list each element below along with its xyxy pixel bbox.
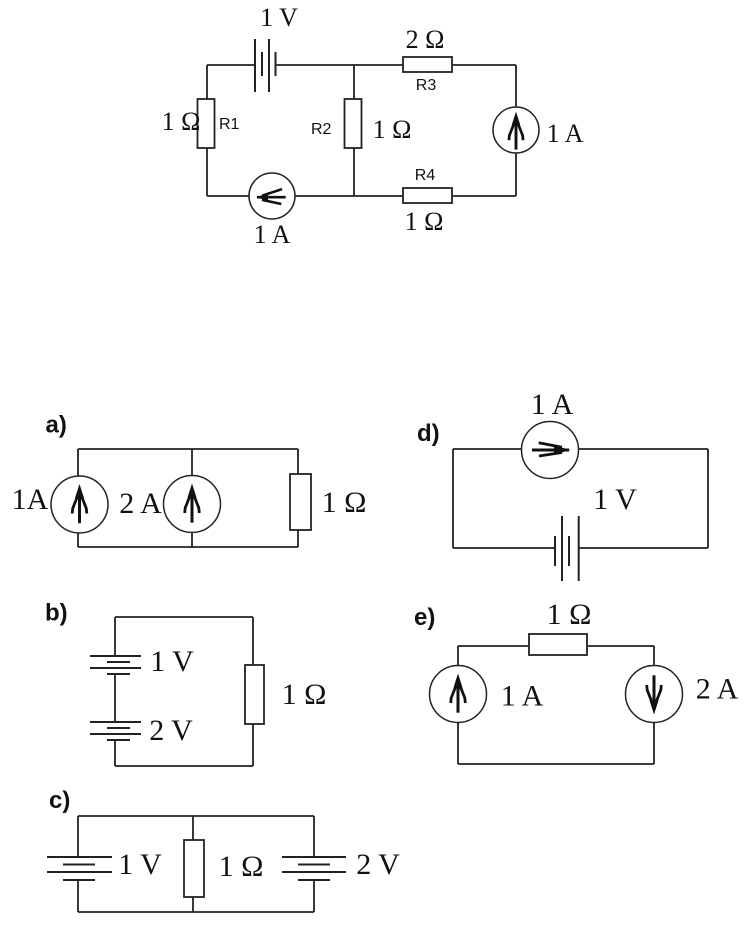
wire: d top rail left [453, 448, 522, 450]
svg-text:1 A: 1 A [254, 220, 291, 249]
resistor R3 [403, 57, 452, 72]
svg-text:1 A: 1 A [531, 388, 574, 421]
wire: c top rail [78, 815, 314, 817]
resistor R1 [198, 99, 215, 148]
wire: e top rail left [458, 645, 529, 647]
wire: middle branch lower [353, 148, 355, 196]
wire: e bottom rail [458, 763, 654, 765]
wire: d bottom rail right [579, 547, 708, 549]
svg-text:1 V: 1 V [118, 848, 162, 881]
wire: a top rail [78, 448, 298, 450]
current source Id (1 A, arrow right) [522, 422, 579, 479]
wire: c middle branch stubs [192, 816, 194, 840]
resistor Ra (1 Ohm) [290, 474, 311, 530]
resistor Rc (1 Ohm) [184, 840, 204, 897]
battery Vb2 (2 V) [90, 722, 141, 740]
wire: e top rail right [587, 645, 654, 647]
resistor Rb (1 Ohm) [245, 665, 264, 724]
svg-text:R2: R2 [311, 121, 332, 138]
svg-text:a): a) [46, 412, 67, 439]
current source I2 (1 A, arrow up) [493, 107, 539, 153]
svg-text:1 Ω: 1 Ω [322, 486, 367, 519]
svg-text:2 Ω: 2 Ω [406, 25, 445, 54]
resistor Re (1 Ohm) [529, 634, 587, 655]
svg-text:2 A: 2 A [696, 673, 739, 706]
wire: middle branch upper [353, 65, 355, 99]
svg-text:1 A: 1 A [547, 119, 584, 148]
wire: top rail left segment [207, 64, 255, 66]
svg-text:1 V: 1 V [593, 483, 637, 516]
svg-text:1 Ω: 1 Ω [405, 207, 444, 236]
current source Ie1 (1 A, arrow up) [430, 666, 487, 723]
wire: a left branch stubs [77, 449, 79, 476]
svg-text:1 Ω: 1 Ω [219, 850, 264, 883]
wire: d right branch [707, 449, 709, 548]
battery Vc1 (1 V) [47, 857, 112, 880]
svg-text:1 V: 1 V [260, 3, 298, 32]
wire: top rail right of battery to R3 (tee at x=354) [275, 64, 403, 66]
svg-text:1 Ω: 1 Ω [547, 598, 592, 631]
wire: e left branch stubs [457, 646, 459, 666]
wire: a right branch stubs [297, 449, 299, 474]
wire: right branch upper [515, 65, 517, 107]
svg-text:1 A: 1 A [501, 680, 544, 713]
wire: b left branch stubs [114, 617, 116, 656]
svg-text:R3: R3 [416, 77, 437, 94]
svg-text:e): e) [414, 604, 435, 631]
svg-text:2 A: 2 A [119, 487, 162, 520]
wire: left branch upper [206, 65, 208, 99]
current source I1 (1 A, arrow left) [249, 173, 295, 219]
wire: d left branch [452, 449, 454, 548]
resistor R2 [345, 99, 362, 148]
current source Ia1 (1 A, arrow up) [51, 476, 108, 533]
svg-text:1 V: 1 V [150, 645, 194, 678]
wire: left branch lower [206, 148, 208, 196]
wire: bottom rail middle (tee at x=354) [295, 195, 403, 197]
wire: top rail R3 to right corner [452, 64, 516, 66]
wire: a middle branch stubs [191, 449, 193, 476]
battery Vc2 (2 V) [282, 857, 346, 880]
wire: b top rail [115, 616, 253, 618]
svg-text:2 V: 2 V [149, 714, 193, 747]
svg-text:d): d) [417, 420, 440, 447]
wire: c right branch stubs [313, 816, 315, 857]
wire: a bottom rail [78, 546, 298, 548]
wire: d bottom rail left [453, 547, 555, 549]
wire: bottom rail left [207, 195, 249, 197]
wire: e right branch stubs [653, 646, 655, 666]
svg-text:c): c) [49, 787, 70, 814]
current source Ie2 (2 A, arrow down) [626, 666, 683, 723]
current source Ia2 (2 A, arrow up) [164, 476, 221, 533]
svg-text:1 Ω: 1 Ω [282, 678, 327, 711]
wire: right branch lower [515, 153, 517, 196]
battery V1 (1 V) [255, 39, 276, 92]
wire: c bottom rail [78, 911, 314, 913]
wire: c left branch stubs [77, 816, 79, 857]
battery Vd (1 V) [555, 516, 579, 581]
svg-text:b): b) [45, 600, 68, 627]
wire: d top rail right [579, 448, 709, 450]
resistor R4 [403, 188, 452, 203]
svg-text:1 Ω: 1 Ω [162, 107, 201, 136]
svg-text:1A: 1A [12, 483, 49, 516]
svg-text:R4: R4 [415, 167, 436, 184]
wire: b bottom rail [115, 765, 253, 767]
svg-text:2 V: 2 V [356, 848, 400, 881]
svg-text:1 Ω: 1 Ω [373, 115, 412, 144]
battery Vb1 (1 V) [90, 656, 141, 674]
wire: bottom rail right [452, 195, 516, 197]
wire: b right branch stubs [252, 617, 254, 665]
svg-text:R1: R1 [219, 116, 240, 133]
